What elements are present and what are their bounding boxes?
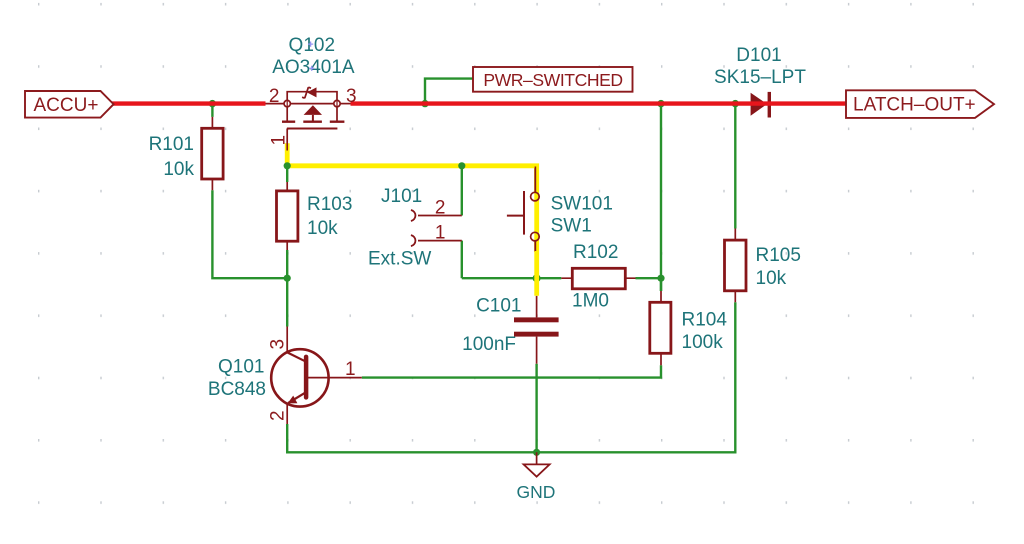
transistor Q102 pin 3 lead	[340, 103, 350, 105]
wire PWR-SWITCHED tap	[425, 79, 473, 102]
wire J101 pin2 drop	[461, 167, 463, 216]
svg-text:Q102: Q102	[289, 35, 335, 56]
wire R101 top stub	[211, 106, 213, 117]
wire C101 bottom to GND rail	[535, 364, 537, 453]
wire R102 right	[636, 277, 662, 279]
node junction on yellow at R103	[284, 162, 291, 169]
node junction R101 R103	[284, 275, 291, 282]
node junction C101 R102 under yellow	[533, 274, 541, 282]
svg-text:100nF: 100nF	[462, 334, 516, 355]
svg-text:2: 2	[268, 410, 289, 421]
svg-text:C101: C101	[476, 296, 521, 317]
diode D101	[751, 92, 771, 118]
svg-text:R102: R102	[573, 242, 618, 263]
resistor R101	[202, 117, 223, 190]
wire R103 top stub from yellow junction	[286, 167, 288, 182]
svg-text:10k: 10k	[756, 268, 787, 289]
wire power bus main segment over diode	[351, 101, 847, 105]
node junction on yellow at J101 pin2	[458, 162, 465, 169]
svg-text:100k: 100k	[682, 332, 724, 353]
svg-text:R104: R104	[682, 310, 728, 331]
node anchor cross Q102	[308, 42, 314, 71]
svg-text:ACCU+: ACCU+	[34, 95, 99, 116]
node junction bus R101 under bus	[209, 100, 216, 107]
resistor R103	[277, 182, 298, 250]
svg-text:SW101: SW101	[551, 194, 613, 215]
switch SW101 pin stubs over yellow	[534, 167, 536, 252]
svg-text:1M0: 1M0	[572, 290, 609, 311]
svg-text:D101: D101	[736, 45, 781, 66]
transistor Q101	[271, 327, 362, 425]
svg-text:GND: GND	[517, 482, 556, 502]
wire R104 top	[660, 278, 662, 291]
node junction bus R105 under bus	[732, 100, 739, 107]
wire Q101 emitter to GND rail	[287, 424, 536, 452]
svg-text:R105: R105	[756, 245, 801, 266]
svg-text:1: 1	[269, 135, 290, 146]
transistor Q102 MOSFET body	[282, 87, 344, 149]
svg-text:SW1: SW1	[551, 216, 592, 237]
label LATCH-OUT+	[846, 90, 994, 118]
wire bus to R105 top	[734, 106, 736, 229]
transistor Q102 pin 2 lead	[266, 103, 285, 105]
svg-text:Ext.SW: Ext.SW	[368, 248, 431, 269]
svg-text:1: 1	[345, 359, 356, 380]
label PWR-SWITCHED	[473, 67, 633, 92]
node junction bus x661 under bus	[657, 100, 664, 107]
resistor R102	[561, 268, 635, 289]
capacitor C101	[514, 317, 559, 363]
svg-text:SK15–LPT: SK15–LPT	[714, 67, 806, 88]
wire Q101 base to R104 bottom	[362, 365, 661, 377]
svg-text:R101: R101	[149, 134, 194, 155]
transistor Q102 gate pin tip over yellow	[286, 143, 288, 151]
node junction bus PWR tap under bus	[421, 100, 428, 107]
switch SW101	[507, 191, 539, 241]
svg-text:R103: R103	[307, 194, 352, 215]
wire R103 bottom to Q101 collector	[286, 250, 288, 327]
resistor R104	[650, 278, 671, 365]
svg-text:BC848: BC848	[208, 379, 266, 400]
svg-text:3: 3	[346, 86, 357, 107]
label ACCU+	[25, 91, 114, 118]
svg-text:LATCH–OUT+: LATCH–OUT+	[853, 95, 976, 116]
node junction GND rail	[533, 449, 540, 456]
svg-text:Q101: Q101	[218, 356, 264, 377]
svg-text:10k: 10k	[307, 218, 338, 239]
wire R105 bottom to GND rail	[537, 302, 736, 452]
svg-text:J101: J101	[381, 186, 422, 207]
svg-text:2: 2	[269, 86, 280, 107]
svg-text:3: 3	[268, 339, 289, 350]
ground GND symbol	[524, 452, 550, 476]
wire R101 bottom to R103 junction	[212, 190, 287, 278]
switch SW101 pin stubs	[534, 166, 536, 252]
wire R102 left	[462, 277, 562, 279]
resistor R105	[725, 229, 747, 303]
node junction R102 R104	[657, 275, 664, 282]
wire J101 pin1 drop	[461, 241, 463, 279]
connector J101 pin 2	[411, 210, 462, 221]
svg-text:2: 2	[435, 198, 446, 219]
svg-text:10k: 10k	[163, 159, 194, 180]
svg-text:PWR–SWITCHED: PWR–SWITCHED	[483, 70, 622, 90]
connector J101 pin 1	[411, 235, 462, 246]
wire power bus ACCU+ segment	[112, 101, 266, 105]
capacitor C101 top pin	[536, 296, 538, 318]
wire yellow highlighted net	[287, 143, 537, 295]
wire bus to R102/R104 junction	[660, 106, 662, 278]
svg-text:1: 1	[435, 223, 446, 244]
